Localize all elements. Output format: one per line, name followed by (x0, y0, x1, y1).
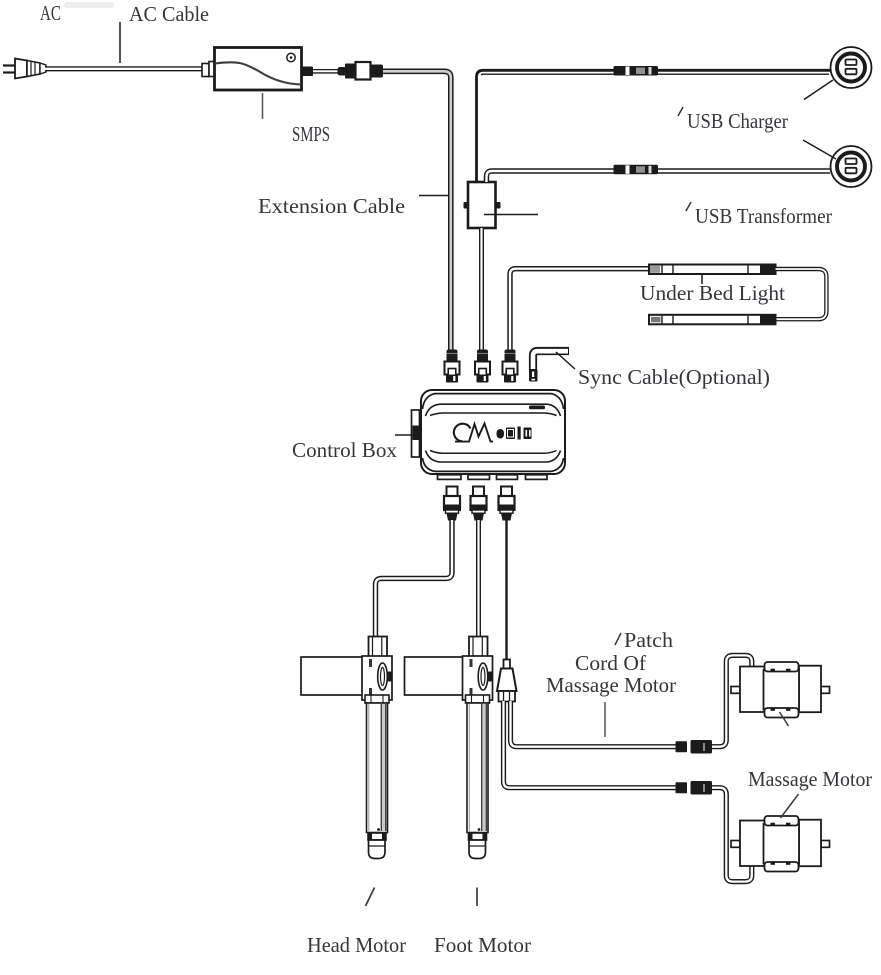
svg-text:USB Charger: USB Charger (687, 109, 788, 133)
USB charger 2 (831, 146, 872, 187)
svg-text:Control Box: Control Box (292, 438, 397, 462)
USB transformer left pin (464, 202, 469, 209)
massage motor 1 (731, 662, 830, 718)
extension cable wire (383, 71, 451, 350)
label USB Transformer (695, 204, 832, 228)
sync cable pointer (556, 352, 575, 369)
massage motor pointer (781, 794, 799, 818)
control box foot tab 2 (468, 475, 490, 480)
sync cable tube (533, 351, 569, 370)
label AC (40, 1, 61, 25)
svg-text:Extension Cable: Extension Cable (258, 194, 405, 218)
label Control Box (292, 438, 397, 462)
svg-text:Sync Cable(Optional): Sync Cable(Optional) (578, 365, 770, 389)
label Under Bed Light (640, 281, 785, 305)
svg-text:Foot Motor: Foot Motor (434, 933, 531, 957)
under bed light strip top (649, 265, 776, 275)
svg-text:Massage Motor: Massage Motor (748, 767, 872, 791)
USB charger 2 pointer (803, 140, 836, 159)
Extension Cable pointer (419, 195, 449, 197)
control box logo characters (497, 427, 532, 440)
head motor wire (376, 520, 453, 637)
USB transformer output cable (479, 228, 484, 350)
USB charger 1 (831, 47, 872, 88)
control box side connector (412, 410, 420, 457)
massage motor 1 wire (511, 655, 752, 746)
top plug 2 (usb transformer) (475, 350, 490, 383)
SMPS box (215, 48, 302, 91)
USB Transformer label tick (686, 202, 691, 211)
USB riser cable (477, 70, 831, 182)
SMPS label pointer (262, 93, 264, 119)
label AC Cable (129, 2, 209, 26)
SMPS DC output plug (302, 67, 313, 77)
bottom plug 2 (foot motor) (471, 487, 487, 521)
massage patch wire (505, 520, 507, 660)
control box top bevel dark mark (529, 406, 545, 410)
label Sync Cable Optional (578, 365, 770, 389)
AC plug prongs (3, 66, 16, 73)
control box outline (421, 390, 565, 474)
USB cable 1 inline connector (614, 66, 659, 76)
control box foot tab 4 (526, 475, 548, 480)
Control Box pointer (395, 434, 421, 436)
svg-text:Massage Motor: Massage Motor (546, 673, 676, 697)
SMPS indicator circle (287, 53, 295, 61)
svg-text:Head Motor: Head Motor (307, 933, 406, 957)
massage motor 1 tick (780, 712, 789, 726)
label Massage Motor (748, 767, 872, 791)
control box logo M (455, 424, 493, 442)
foot motor (405, 637, 493, 859)
svg-text:Cord Of: Cord Of (575, 651, 646, 675)
USB transformer right pin (496, 202, 501, 209)
massage motor 2 (731, 816, 830, 872)
label SMPS (292, 122, 330, 146)
label Patch Cord Of Massage Motor (546, 628, 676, 697)
USB charger pointer (804, 80, 833, 100)
svg-text:Patch: Patch (624, 628, 674, 652)
under bed light feed cable (510, 269, 650, 350)
USB Charger label tick (678, 107, 683, 116)
bottom plug 3 (massage patch cord) (499, 487, 515, 521)
foot motor wire (476, 520, 481, 638)
massage motor 1 wire connector (676, 740, 713, 754)
AC cable wire (45, 66, 214, 71)
Under Bed Light label tick (701, 274, 703, 284)
USB transformer box (468, 182, 496, 228)
patch cord pointer (604, 702, 606, 737)
control box foot tab 1 (438, 475, 462, 480)
bottom plug 1 (head motor) (444, 487, 460, 521)
USB transformer pointer (484, 214, 538, 216)
top plug 1 (extension cable) (445, 350, 460, 383)
head motor label tick (366, 888, 375, 907)
label USB Charger (687, 109, 788, 133)
massage motor 2 wire connector (676, 781, 713, 795)
SMPS cord curve (215, 62, 301, 84)
SMPS input connector (202, 62, 215, 77)
USB cable 2 (487, 171, 831, 182)
DC inline connector (338, 62, 384, 80)
control box logo Q (454, 424, 471, 442)
control box bottom bevel (423, 451, 564, 472)
massage motor 2 wire (504, 701, 752, 882)
foot motor label tick (476, 888, 478, 907)
label Extension Cable (258, 194, 405, 218)
sync cable connector (529, 370, 538, 382)
DC cable segment (313, 69, 339, 74)
head motor (301, 637, 392, 859)
label Foot Motor (434, 933, 531, 957)
patch cord splitter (497, 660, 517, 702)
control box top bevel (423, 394, 564, 416)
erased label smudge (64, 2, 114, 8)
svg-text:AC: AC (40, 1, 61, 25)
AC Cable pointer line (119, 22, 121, 63)
under bed light strip bottom (649, 315, 776, 325)
svg-text:AC Cable: AC Cable (129, 2, 209, 26)
USB cable 2 inline connector (614, 165, 659, 175)
control box foot tab 3 (497, 475, 518, 480)
svg-text:SMPS: SMPS (292, 122, 330, 146)
svg-text:Under Bed Light: Under Bed Light (640, 281, 785, 305)
AC plug body (15, 59, 46, 79)
under bed light loop wire (776, 269, 827, 319)
svg-text:USB Transformer: USB Transformer (695, 204, 832, 228)
label Head Motor (307, 933, 406, 957)
top plug 3 (under bed light) (503, 350, 518, 383)
